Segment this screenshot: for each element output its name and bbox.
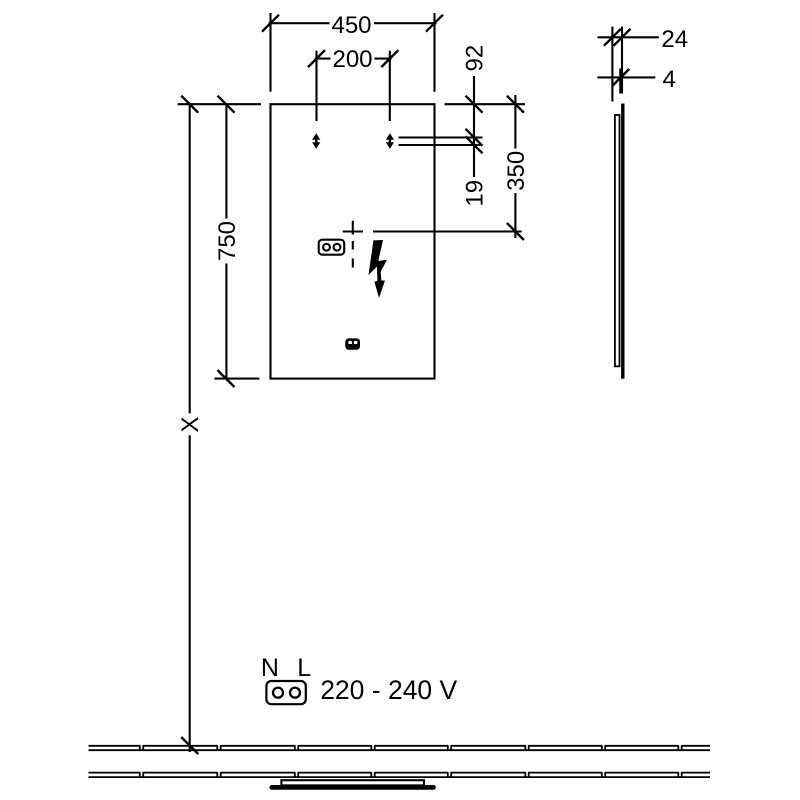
svg-text:92: 92 — [462, 45, 489, 72]
svg-text:L: L — [297, 654, 311, 682]
svg-text:350: 350 — [503, 151, 530, 191]
svg-text:200: 200 — [332, 46, 372, 73]
svg-text:19: 19 — [462, 180, 489, 207]
svg-text:4: 4 — [663, 66, 676, 93]
svg-text:220 - 240 V: 220 - 240 V — [320, 675, 457, 705]
svg-text:24: 24 — [661, 26, 688, 53]
svg-text:X: X — [177, 416, 204, 432]
svg-text:750: 750 — [214, 221, 241, 261]
svg-text:N: N — [261, 654, 279, 682]
svg-text:450: 450 — [331, 12, 371, 39]
